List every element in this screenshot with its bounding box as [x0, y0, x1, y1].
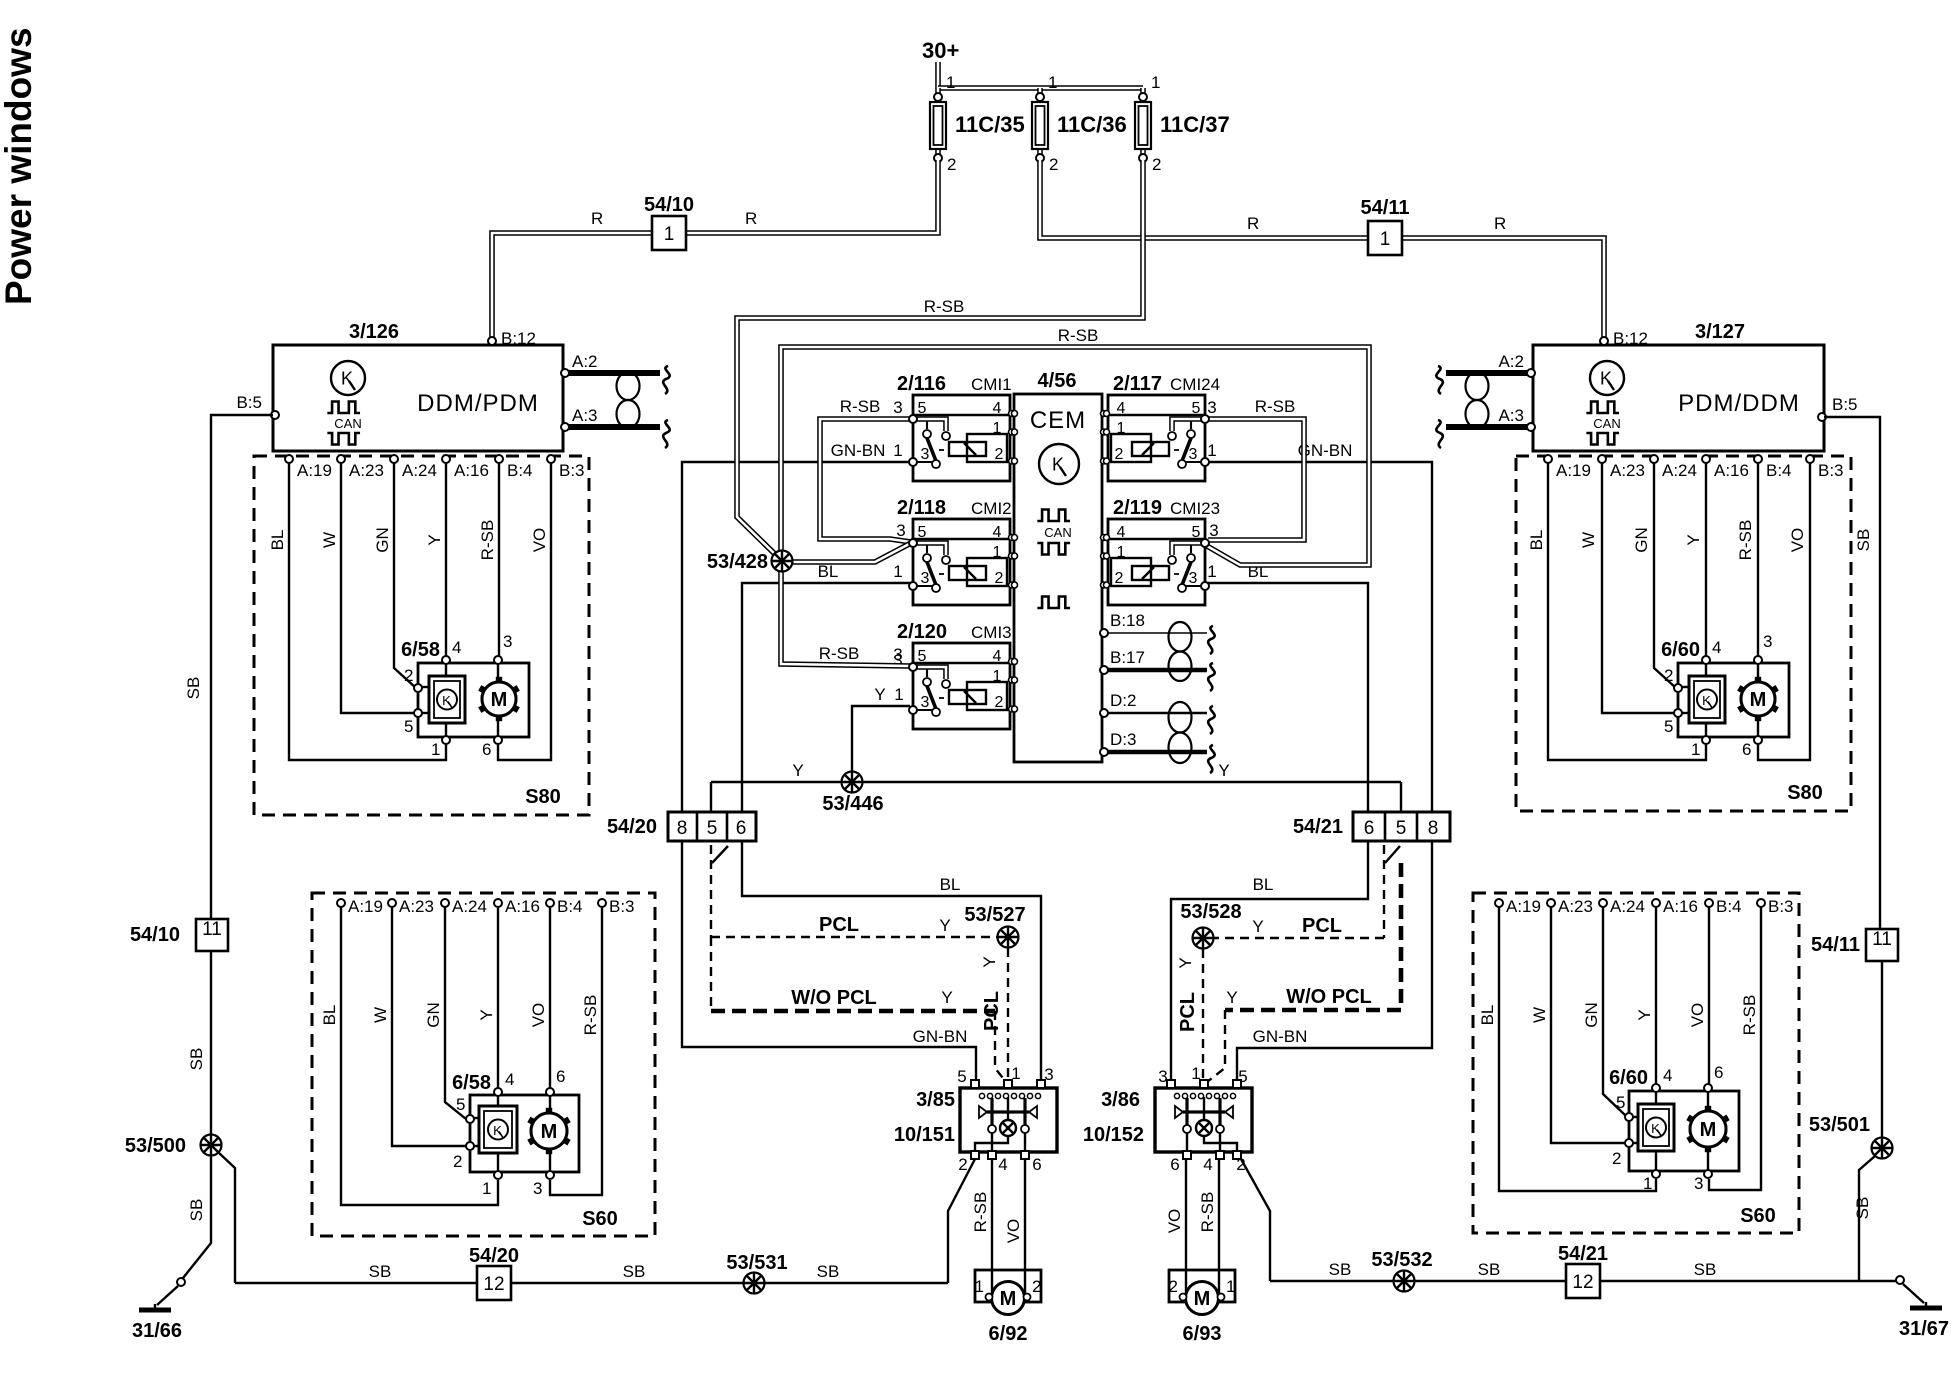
pulse symbol CEM	[1037, 597, 1070, 609]
svg-text:4: 4	[505, 1070, 514, 1089]
wire Y A:16 left S80	[445, 458, 447, 659]
svg-text:Y: Y	[1684, 534, 1703, 545]
wire GN-BN left	[682, 462, 913, 812]
svg-text:3: 3	[893, 645, 902, 664]
wire SB left rail mid	[210, 951, 212, 1135]
svg-text:6: 6	[1364, 818, 1375, 839]
switch arm 2/119	[1182, 562, 1191, 585]
wire BL 54/20 to relay 3/85	[742, 841, 1041, 1084]
svg-text:1: 1	[894, 685, 903, 704]
ECU PDM/DDM 3/127	[1498, 321, 1857, 480]
svg-text:A:16: A:16	[454, 461, 489, 480]
svg-text:M: M	[1194, 1288, 1211, 1310]
svg-text:6/58: 6/58	[401, 639, 440, 661]
wire R feed right 54/11 to B:12	[1040, 160, 1604, 345]
svg-text:2: 2	[1115, 570, 1124, 587]
svg-text:R-SB: R-SB	[1255, 397, 1296, 416]
svg-text:A:19: A:19	[1556, 461, 1591, 480]
svg-text:2/119: 2/119	[1113, 497, 1162, 519]
svg-text:4: 4	[452, 638, 461, 657]
switch module 2/116 CMI1	[897, 373, 1018, 481]
svg-text:M: M	[1700, 1119, 1717, 1141]
svg-text:A:19: A:19	[1506, 897, 1541, 916]
splice 53/428	[772, 551, 793, 572]
svg-text:4: 4	[993, 524, 1002, 541]
wire D:3 CEM	[1104, 750, 1207, 755]
svg-text:R-SB: R-SB	[840, 397, 881, 416]
twisted pair A:2/A:3 left	[569, 366, 670, 448]
wire SB left rail B:5	[211, 415, 273, 919]
CAN symbol CEM	[1037, 510, 1070, 522]
wire W left S60	[392, 907, 470, 1146]
svg-text:3: 3	[1044, 1065, 1053, 1084]
svg-text:B:3: B:3	[609, 897, 635, 916]
svg-text:VO: VO	[1165, 1209, 1184, 1234]
svg-text:SB: SB	[1854, 529, 1873, 552]
svg-text:B:5: B:5	[236, 393, 262, 412]
svg-text:S60: S60	[582, 1208, 618, 1230]
wire BL A:19 right S80	[1548, 458, 1706, 760]
svg-text:2: 2	[995, 570, 1004, 587]
wire R-SB left S60	[550, 907, 602, 1195]
svg-text:A:16: A:16	[1663, 897, 1698, 916]
svg-text:PDM/DDM: PDM/DDM	[1678, 390, 1800, 417]
svg-text:1: 1	[893, 441, 902, 460]
svg-text:1: 1	[975, 1277, 984, 1296]
connector 54/10	[652, 216, 686, 250]
wire R-SB splice to 2/120	[781, 560, 910, 666]
svg-text:12: 12	[483, 1274, 504, 1295]
wire Y W/O PCL right	[1399, 863, 1404, 1010]
relay coil 2/117	[1132, 442, 1169, 456]
svg-text:M: M	[541, 1121, 558, 1143]
CAN symbol 3/126	[327, 402, 360, 414]
svg-text:A:24: A:24	[1610, 897, 1645, 916]
svg-text:A:16: A:16	[505, 897, 540, 916]
motor 6/93	[1169, 1270, 1236, 1345]
svg-text:S80: S80	[1787, 782, 1823, 804]
svg-text:3: 3	[1207, 398, 1216, 417]
svg-text:2: 2	[404, 666, 413, 685]
svg-text:54/21: 54/21	[1293, 816, 1343, 838]
S80 right dashed box	[1516, 456, 1851, 811]
splice 53/500	[201, 1135, 222, 1156]
svg-text:3/127: 3/127	[1695, 321, 1745, 343]
K logo 3/127	[1590, 361, 1624, 395]
svg-text:A:24: A:24	[402, 461, 437, 480]
relay coil 2/120	[949, 690, 986, 704]
svg-text:CMI23: CMI23	[1170, 499, 1220, 518]
svg-text:Y: Y	[939, 916, 950, 935]
splice 53/501	[1872, 1138, 1893, 1159]
wire VO left S60	[549, 907, 551, 1089]
splice 53/527	[998, 927, 1019, 948]
switch arm 2/117	[1182, 438, 1191, 461]
motor M 6/60 S60	[1686, 1106, 1729, 1152]
svg-text:6: 6	[556, 1067, 565, 1086]
svg-text:31/66: 31/66	[132, 1320, 182, 1342]
svg-text:Y: Y	[1176, 957, 1195, 968]
wire SB bottom rail left	[235, 1282, 948, 1284]
svg-text:CMI24: CMI24	[1170, 375, 1220, 394]
svg-text:A:19: A:19	[348, 897, 383, 916]
motor M 6/58	[478, 677, 520, 721]
svg-text:5: 5	[957, 1067, 966, 1086]
svg-text:A:3: A:3	[1498, 406, 1524, 425]
svg-text:1: 1	[1207, 562, 1216, 581]
relay contact	[990, 1098, 993, 1125]
wire R feed left 54/10 to B:12	[492, 160, 938, 345]
pin A:3 3/126	[561, 423, 569, 431]
svg-text:BL: BL	[320, 1005, 339, 1026]
wire GN-BN right	[1205, 462, 1432, 812]
connector 54/11	[1368, 221, 1402, 255]
bottom pins 3/126	[285, 455, 293, 463]
wire R-SB B:4 left S80	[498, 458, 500, 659]
svg-text:3/86: 3/86	[1101, 1089, 1140, 1111]
wire R-SB relay 3/86 to motor 6/93	[1218, 1159, 1220, 1293]
wire VO relay 3/85 to motor 6/92	[1024, 1159, 1026, 1293]
svg-text:BL: BL	[1527, 530, 1546, 551]
wire R-SB second run	[781, 347, 1369, 565]
svg-text:1: 1	[664, 224, 675, 245]
wire Y 2/120 to splice	[852, 706, 910, 782]
splice 53/528	[1193, 928, 1214, 949]
svg-text:5: 5	[1192, 524, 1201, 541]
svg-text:D:3: D:3	[1110, 730, 1136, 749]
svg-text:10/151: 10/151	[894, 1124, 955, 1146]
svg-text:VO: VO	[529, 1003, 548, 1028]
pin A:2 3/126	[561, 369, 569, 377]
wire GN A:24 left S80	[394, 458, 416, 688]
svg-text:A:3: A:3	[572, 406, 598, 425]
svg-text:5: 5	[1238, 1067, 1247, 1086]
svg-text:1: 1	[1048, 73, 1057, 92]
K logo 3/126	[331, 361, 365, 395]
wire BL right	[1205, 583, 1368, 812]
svg-text:S60: S60	[1740, 1205, 1776, 1227]
svg-text:W: W	[1579, 532, 1598, 548]
svg-text:2: 2	[1664, 666, 1673, 685]
svg-text:GN-BN: GN-BN	[913, 1027, 968, 1046]
svg-text:8: 8	[1428, 818, 1439, 839]
wire D:2 CEM	[1104, 712, 1207, 715]
wire R-SB right S60	[1709, 907, 1761, 1190]
svg-text:1: 1	[1643, 1174, 1652, 1193]
wire 30+ feed	[935, 62, 941, 88]
svg-text:W: W	[1530, 1007, 1549, 1023]
svg-text:4: 4	[1117, 400, 1126, 417]
svg-text:CAN: CAN	[334, 416, 361, 431]
svg-text:2: 2	[1049, 155, 1058, 174]
svg-text:BL: BL	[940, 875, 961, 894]
svg-text:11: 11	[202, 919, 222, 940]
svg-text:4: 4	[1663, 1066, 1672, 1085]
svg-text:B:4: B:4	[507, 461, 533, 480]
svg-text:53/532: 53/532	[1371, 1249, 1432, 1271]
svg-text:3/126: 3/126	[349, 321, 399, 343]
window motor unit 6/58 S60 left	[452, 1067, 579, 1198]
wire VO B:3 left S80	[498, 458, 551, 760]
svg-text:R-SB: R-SB	[971, 1192, 990, 1233]
svg-text:CAN: CAN	[1044, 525, 1071, 540]
svg-text:VO: VO	[1004, 1219, 1023, 1244]
svg-text:5: 5	[456, 1095, 465, 1114]
wire BL right S60	[1499, 907, 1656, 1191]
svg-text:11C/36: 11C/36	[1057, 112, 1127, 137]
svg-text:SB: SB	[1694, 1260, 1717, 1279]
svg-text:1: 1	[1011, 1064, 1020, 1083]
wire W A:23 left S80	[341, 458, 418, 713]
svg-text:VO: VO	[530, 528, 549, 553]
svg-text:2: 2	[995, 694, 1004, 711]
ECU CEM 4/56	[1014, 370, 1102, 762]
pin A:3 3/127	[1527, 423, 1535, 431]
relay coil 2/119	[1132, 566, 1169, 580]
pin B:12 3/126	[488, 337, 496, 345]
svg-text:Y: Y	[792, 761, 803, 780]
wire Y PCL dashed right	[1383, 845, 1385, 938]
svg-text:B:18: B:18	[1110, 611, 1145, 630]
svg-text:BL: BL	[268, 530, 287, 551]
svg-text:6/93: 6/93	[1183, 1323, 1222, 1345]
svg-text:Y: Y	[425, 534, 444, 545]
svg-text:B:3: B:3	[1768, 897, 1794, 916]
S60 left dashed box	[312, 893, 655, 1236]
wire Y splice to relay pin 1 right	[1202, 949, 1204, 1084]
svg-text:6/60: 6/60	[1609, 1067, 1648, 1089]
svg-text:5: 5	[1192, 400, 1201, 417]
svg-text:2/116: 2/116	[897, 373, 946, 395]
relay coil 2/118	[949, 566, 986, 580]
svg-text:53/527: 53/527	[964, 904, 1025, 926]
pin B:5 3/126	[271, 411, 279, 419]
svg-text:11C/37: 11C/37	[1160, 112, 1230, 137]
window motor unit 6/60 S60 right	[1609, 1063, 1739, 1193]
wire BL 54/21 to relay 3/86	[1171, 841, 1368, 1084]
wire BL left S60	[341, 907, 498, 1205]
svg-text:Y: Y	[1226, 988, 1237, 1007]
svg-text:6: 6	[1032, 1155, 1041, 1174]
svg-text:4/56: 4/56	[1038, 370, 1077, 392]
relay lamp	[1203, 1097, 1205, 1120]
wire SB right rail B:5	[1824, 417, 1880, 929]
splice 53/446	[842, 772, 863, 793]
svg-text:GN-BN: GN-BN	[1253, 1027, 1308, 1046]
relay 3/85 10/151	[960, 1080, 1057, 1159]
twisted pair A:2/A:3 right	[1436, 366, 1527, 448]
fuse 11C/35	[930, 73, 1025, 174]
svg-text:PCL: PCL	[1302, 915, 1342, 937]
svg-text:B:12: B:12	[1613, 329, 1648, 348]
connector 54/21 strip	[1293, 812, 1450, 841]
svg-text:A:2: A:2	[1498, 352, 1524, 371]
svg-text:W: W	[320, 532, 339, 548]
pin B:12 3/127	[1600, 337, 1608, 345]
svg-text:2: 2	[958, 1155, 967, 1174]
svg-text:6: 6	[736, 818, 747, 839]
svg-text:A:24: A:24	[1662, 461, 1697, 480]
svg-text:1: 1	[482, 1179, 491, 1198]
svg-text:SB: SB	[623, 1262, 646, 1281]
svg-text:Y: Y	[477, 1009, 496, 1020]
twisted pair D:2/D:3	[1169, 702, 1192, 733]
svg-text:M: M	[1750, 689, 1767, 711]
svg-text:R: R	[1494, 214, 1506, 233]
svg-text:54/20: 54/20	[469, 1245, 519, 1267]
svg-text:1: 1	[1207, 441, 1216, 460]
svg-text:6: 6	[1714, 1063, 1723, 1082]
wire Y W/O PCL left	[710, 937, 712, 1011]
svg-text:M: M	[491, 689, 508, 711]
svg-text:Y: Y	[1635, 1009, 1654, 1020]
svg-text:R: R	[1247, 214, 1259, 233]
switch module 2/118 CMI2	[897, 497, 1018, 605]
svg-text:3: 3	[1158, 1067, 1167, 1086]
wire Y splice to relay pin 1 left	[1007, 948, 1009, 1084]
svg-text:A:16: A:16	[1714, 461, 1749, 480]
svg-text:Y: Y	[941, 988, 952, 1007]
switch arm 2/116	[927, 438, 936, 461]
splice 53/531	[744, 1273, 765, 1294]
svg-text:6/92: 6/92	[989, 1323, 1028, 1345]
switch arm 2/118	[927, 562, 936, 585]
svg-text:R: R	[591, 209, 603, 228]
svg-text:SB: SB	[187, 1048, 206, 1071]
svg-text:A:23: A:23	[399, 897, 434, 916]
svg-text:2: 2	[1115, 446, 1124, 463]
svg-text:10/152: 10/152	[1083, 1124, 1144, 1146]
svg-text:B:17: B:17	[1110, 648, 1145, 667]
svg-text:Y: Y	[1218, 761, 1229, 780]
svg-text:53/531: 53/531	[726, 1252, 787, 1274]
svg-text:R-SB: R-SB	[1058, 326, 1099, 345]
svg-text:3: 3	[1694, 1174, 1703, 1193]
svg-text:54/11: 54/11	[1811, 934, 1860, 956]
svg-text:W/O PCL: W/O PCL	[791, 987, 877, 1009]
svg-text:54/10: 54/10	[130, 924, 180, 946]
svg-text:12: 12	[1572, 1272, 1593, 1293]
svg-text:Y: Y	[1252, 917, 1263, 936]
wire VO right S60	[1708, 907, 1710, 1085]
svg-text:2/118: 2/118	[897, 497, 946, 519]
S80 left dashed box	[254, 456, 589, 815]
svg-text:2/120: 2/120	[897, 621, 947, 643]
splice 53/532	[1394, 1271, 1415, 1292]
wire Y main	[711, 781, 1401, 783]
svg-text:4: 4	[993, 648, 1002, 665]
svg-text:VO: VO	[1688, 1003, 1707, 1028]
svg-text:53/500: 53/500	[125, 1135, 186, 1157]
wire R-SB splice to 2/118	[790, 543, 911, 562]
svg-text:BL: BL	[1253, 875, 1274, 894]
wire Y PCL dashed left	[710, 845, 712, 937]
wire Y left S60	[497, 907, 499, 1089]
bottom pins 3/127	[1544, 455, 1552, 463]
wire R-SB jumper 2/117 to 2/119	[1206, 419, 1304, 540]
svg-text:4: 4	[1203, 1155, 1212, 1174]
svg-text:54/11: 54/11	[1361, 197, 1410, 219]
wire GN-BN 54/21 to relay 3/86	[1237, 841, 1432, 1084]
svg-text:S80: S80	[525, 786, 561, 808]
svg-text:GN: GN	[373, 527, 392, 553]
svg-text:SB: SB	[1478, 1260, 1501, 1279]
svg-text:M: M	[1000, 1288, 1017, 1310]
svg-text:A:19: A:19	[297, 461, 332, 480]
svg-text:5: 5	[918, 524, 927, 541]
wire VO relay 3/86 to motor 6/93	[1185, 1159, 1187, 1293]
svg-text:R-SB: R-SB	[1736, 520, 1755, 561]
svg-text:W/O PCL: W/O PCL	[1286, 986, 1372, 1008]
svg-text:6/60: 6/60	[1661, 639, 1700, 661]
wire SB right rail mid	[1881, 961, 1883, 1137]
motor M 6/58 S60	[527, 1108, 570, 1154]
wire R-SB B:4 right S80	[1757, 458, 1759, 659]
svg-text:11: 11	[1872, 929, 1892, 950]
svg-text:CAN: CAN	[1593, 416, 1620, 431]
wire Y A:16 right S80	[1705, 458, 1707, 659]
pin A:2 3/127	[1527, 369, 1535, 377]
svg-text:53/446: 53/446	[822, 793, 883, 815]
svg-text:5: 5	[918, 648, 927, 665]
motor 6/92	[975, 1270, 1042, 1345]
svg-text:R-SB: R-SB	[924, 297, 965, 316]
svg-text:1: 1	[1191, 1064, 1200, 1083]
svg-text:2: 2	[1032, 1277, 1041, 1296]
svg-text:CMI2: CMI2	[971, 499, 1012, 518]
relay contact	[1185, 1098, 1188, 1125]
relay coil 2/116	[949, 442, 986, 456]
svg-text:3: 3	[893, 398, 902, 417]
wire SB splice to bottom rail left	[218, 1152, 235, 1283]
relay contact	[1023, 1098, 1026, 1125]
svg-text:1: 1	[1226, 1277, 1235, 1296]
svg-text:54/10: 54/10	[644, 194, 694, 216]
svg-text:BL: BL	[818, 562, 839, 581]
svg-text:A:23: A:23	[349, 461, 384, 480]
ground connection 31/67	[1859, 1280, 1896, 1282]
svg-text:53/501: 53/501	[1809, 1114, 1870, 1136]
svg-text:CMI3: CMI3	[971, 623, 1012, 642]
svg-text:GN: GN	[1582, 1002, 1601, 1028]
svg-text:54/20: 54/20	[607, 816, 657, 838]
svg-text:2: 2	[1612, 1149, 1621, 1168]
wire SB splice to bottom rail right	[1859, 1156, 1875, 1281]
svg-text:3: 3	[921, 570, 930, 587]
window motor unit 6/58 left	[401, 632, 529, 759]
svg-text:3: 3	[921, 446, 930, 463]
fuse 11C/36	[1032, 73, 1127, 174]
svg-text:4: 4	[1712, 638, 1721, 657]
svg-text:VO: VO	[1788, 528, 1807, 553]
svg-text:CEM: CEM	[1030, 407, 1086, 434]
svg-text:R-SB: R-SB	[1198, 1192, 1217, 1233]
svg-text:5: 5	[1616, 1093, 1625, 1112]
svg-text:R-SB: R-SB	[478, 520, 497, 561]
svg-text:1: 1	[1380, 229, 1391, 250]
S60 left pins	[337, 899, 345, 907]
wire B:18 CEM	[1104, 632, 1207, 634]
svg-text:3: 3	[896, 521, 905, 540]
svg-text:R-SB: R-SB	[1740, 995, 1759, 1036]
wire GN-BN 54/20 to relay 3/85	[682, 841, 976, 1084]
svg-text:PCL: PCL	[819, 914, 859, 936]
svg-text:D:2: D:2	[1110, 691, 1136, 710]
svg-text:2: 2	[453, 1152, 462, 1171]
connector 54/11 11	[1866, 929, 1898, 961]
wire B:17 CEM	[1104, 668, 1207, 673]
svg-text:R: R	[745, 209, 757, 228]
